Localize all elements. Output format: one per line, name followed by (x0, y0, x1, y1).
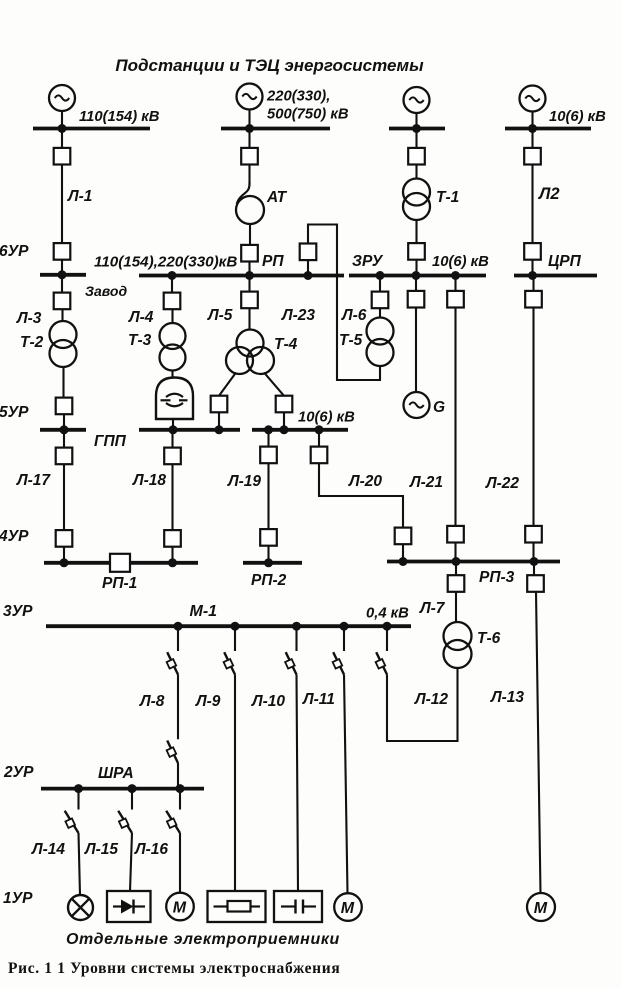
wire (177, 628, 179, 651)
switch (automatic breaker) (65, 811, 79, 833)
svg-text:110(154) кВ: 110(154) кВ (79, 109, 160, 125)
wire (61, 111, 63, 128)
breaker (408, 243, 425, 260)
svg-text:ЦРП: ЦРП (548, 253, 582, 270)
svg-text:РП-2: РП-2 (251, 572, 287, 589)
svg-text:220(330),: 220(330), (266, 89, 330, 105)
junction (376, 271, 385, 280)
bus 220(330)/500(750) kV (221, 127, 330, 131)
junction (176, 784, 185, 793)
bus РП-2 (243, 561, 302, 565)
breaker (211, 396, 228, 413)
junction (58, 270, 67, 279)
svg-text:РП-3: РП-3 (479, 569, 515, 586)
breaker (164, 530, 181, 547)
wire (531, 111, 533, 127)
junction (412, 124, 421, 133)
line Л2 wire (531, 165, 533, 244)
breaker Л-20 (311, 447, 328, 464)
svg-text:Л-16: Л-16 (134, 841, 168, 858)
svg-text:Рис. 1 1 Уровни системы элект: Рис. 1 1 Уровни системы электроснабжения (8, 960, 340, 977)
junction (412, 271, 421, 280)
bus М-1 0,4кВ (46, 624, 411, 628)
junction (168, 558, 177, 567)
wire (415, 308, 417, 393)
bus РП-1 (44, 561, 198, 565)
breaker (276, 396, 293, 413)
wire (61, 130, 63, 148)
switch (automatic breaker) (118, 811, 132, 833)
breaker (447, 526, 464, 543)
bus ШРА (41, 787, 204, 791)
svg-text:РП: РП (262, 253, 284, 270)
wire (177, 675, 179, 740)
line Л-22 wire (532, 308, 534, 527)
switch (automatic breaker) (285, 652, 296, 674)
breaker (447, 291, 464, 308)
wire (295, 628, 297, 651)
wire (248, 165, 250, 184)
wire (77, 790, 79, 810)
junction (315, 425, 324, 434)
wire (532, 543, 534, 561)
wire (61, 309, 63, 321)
svg-text:Т-6: Т-6 (477, 630, 501, 647)
wire Л-20 route (319, 463, 403, 527)
breaker Л-7 (448, 575, 465, 592)
line Л-21 wire (454, 308, 456, 527)
generator G (404, 392, 430, 418)
junction (264, 558, 273, 567)
junction (530, 557, 539, 566)
svg-text:Л-12: Л-12 (414, 691, 448, 708)
junction (304, 271, 313, 280)
wire (171, 277, 173, 293)
svg-text:Л-18: Л-18 (132, 472, 166, 489)
svg-text:Отдельные электроприемники: Отдельные электроприемники (66, 931, 340, 948)
transformer Т-3 (160, 323, 186, 371)
junction (74, 784, 83, 793)
junction (168, 271, 177, 280)
wire (248, 277, 250, 292)
wire (63, 431, 65, 448)
junction (528, 124, 537, 133)
wire (455, 563, 457, 575)
bus (389, 127, 445, 131)
wire (267, 546, 269, 561)
bus РП 110(154),220(330)кВ (139, 274, 344, 278)
svg-text:Т-4: Т-4 (274, 336, 298, 353)
breaker Л-18 (164, 448, 181, 465)
bus 10(6)кВ ГПП (252, 428, 348, 432)
junction (280, 425, 289, 434)
svg-text:10(6) кВ: 10(6) кВ (549, 109, 606, 125)
wire (415, 277, 417, 291)
wire (63, 414, 65, 428)
svg-text:Л-21: Л-21 (409, 474, 443, 491)
svg-text:10(6) кВ: 10(6) кВ (432, 254, 489, 270)
svg-text:10(6) кВ: 10(6) кВ (298, 410, 355, 426)
svg-text:Л-9: Л-9 (195, 693, 221, 710)
motor М (Л-11) (334, 893, 362, 921)
breaker (408, 291, 425, 308)
electrothermal load (furnace) under Т-3 (156, 378, 193, 420)
breaker Л-3 (54, 293, 71, 310)
junction (528, 271, 537, 280)
svg-text:Л-1: Л-1 (67, 188, 92, 205)
wire (171, 371, 173, 378)
wire (179, 790, 181, 810)
wire (248, 130, 250, 148)
svg-text:G: G (433, 399, 445, 416)
wire (531, 260, 533, 275)
junction (451, 271, 460, 280)
wire (249, 224, 251, 245)
transformer Т-2 (50, 321, 77, 367)
breaker (524, 243, 541, 260)
wire (62, 367, 64, 398)
svg-text:Л-5: Л-5 (207, 307, 233, 324)
transformer Т-5 (367, 318, 394, 367)
svg-text:М: М (341, 900, 355, 917)
svg-text:110(154),220(330)кВ: 110(154),220(330)кВ (94, 254, 237, 271)
autotransformer АТ (236, 182, 264, 224)
switch (automatic breaker) (376, 652, 387, 674)
wire (63, 547, 65, 561)
breaker (241, 148, 258, 165)
capacitor load box (274, 891, 322, 922)
svg-text:0,4 кВ: 0,4 кВ (366, 606, 409, 622)
breaker (54, 148, 71, 165)
svg-text:ЗРУ: ЗРУ (352, 253, 384, 270)
line Л-1 wire (61, 165, 63, 244)
wire (172, 419, 174, 428)
svg-text:Т-1: Т-1 (436, 189, 459, 206)
wire (344, 675, 348, 894)
wire Л-12 route (387, 668, 458, 741)
junction (60, 425, 69, 434)
wire (379, 308, 381, 318)
line Л-13 wire (536, 592, 541, 894)
wire (234, 675, 236, 892)
wire (379, 277, 381, 292)
svg-text:АТ: АТ (266, 189, 288, 206)
breaker Л-13 (527, 575, 544, 592)
svg-text:ГПП: ГПП (94, 433, 127, 450)
svg-text:М: М (173, 900, 187, 917)
bus РП-3 (387, 560, 560, 564)
breaker 4УР (56, 530, 73, 547)
motor М (Л-13) (527, 893, 555, 921)
switch (automatic breaker) (333, 652, 344, 674)
svg-text:Т-3: Т-3 (128, 332, 152, 349)
svg-text:500(750) кВ: 500(750) кВ (267, 107, 349, 123)
transformer Т-4 (3-winding) (226, 330, 274, 375)
transformer Т-6 (444, 622, 472, 668)
source ~ system 220-750kV (237, 84, 263, 110)
breaker (408, 148, 425, 165)
switch (automatic breaker) (167, 652, 178, 674)
rectifier load box (107, 891, 151, 922)
junction (452, 557, 461, 566)
svg-text:Т-5: Т-5 (339, 332, 363, 349)
breaker (260, 529, 277, 546)
breaker (241, 245, 258, 262)
wire (415, 220, 417, 243)
breaker 5УР (56, 398, 73, 415)
motor М (Л-16) (166, 893, 194, 921)
wire (79, 833, 81, 895)
wire (130, 833, 132, 891)
svg-text:Л-11: Л-11 (302, 691, 335, 708)
wire (454, 277, 456, 291)
wire (343, 628, 345, 651)
svg-text:Л-8: Л-8 (139, 693, 165, 710)
junction (169, 425, 178, 434)
wire Т-4 left leg (219, 373, 236, 396)
breaker Л-17 (56, 448, 73, 465)
svg-text:Л-10: Л-10 (251, 693, 285, 710)
wire (171, 464, 173, 530)
wire (386, 628, 388, 651)
wire (532, 277, 534, 291)
junction (292, 622, 301, 631)
wire (63, 464, 65, 530)
svg-text:РП-1: РП-1 (102, 575, 137, 592)
wire (454, 543, 456, 561)
wire (218, 412, 220, 428)
resistor load box (208, 891, 266, 922)
source ~ system 10(6)kV (520, 86, 546, 112)
wire (248, 109, 250, 127)
bus Завод (6УР) (40, 273, 86, 277)
breaker 6УР (54, 243, 71, 260)
wire (171, 309, 173, 323)
wire (415, 113, 417, 128)
wire (531, 130, 533, 148)
wire (297, 675, 299, 892)
breaker (395, 528, 412, 545)
wire (402, 544, 404, 560)
source ~ system (Т-1 feeder) (404, 87, 430, 113)
svg-text:2УР: 2УР (3, 764, 34, 781)
wire (415, 165, 417, 179)
svg-text:Л-4: Л-4 (128, 309, 154, 326)
wire (267, 463, 269, 529)
junction (245, 271, 254, 280)
bus ЗРУ 10(6)кВ (349, 274, 486, 278)
svg-text:Л-19: Л-19 (227, 473, 261, 490)
svg-text:Л-22: Л-22 (485, 475, 519, 492)
junction (383, 622, 392, 631)
breaker Л-23 (300, 244, 317, 261)
transformer Т-1 (403, 179, 430, 221)
svg-text:Л-15: Л-15 (84, 841, 118, 858)
svg-text:Л-3: Л-3 (16, 310, 42, 327)
svg-text:4УР: 4УР (0, 528, 29, 545)
svg-text:Л-17: Л-17 (16, 472, 51, 489)
svg-text:Л-23: Л-23 (281, 307, 315, 324)
wire (267, 431, 269, 447)
wire (415, 260, 417, 275)
sectionalizing switch РП-1 (110, 554, 130, 572)
svg-text:1УР: 1УР (3, 890, 33, 907)
bus 10(6) kV (505, 127, 591, 131)
wire (248, 262, 250, 275)
svg-text:Подстанции и ТЭЦ энергосистемы: Подстанции и ТЭЦ энергосистемы (115, 56, 424, 75)
junction (174, 622, 183, 631)
svg-text:М: М (534, 900, 548, 917)
switch (automatic breaker) (224, 652, 235, 674)
svg-text:Т-2: Т-2 (20, 334, 44, 351)
switch (automatic breaker) (166, 811, 180, 833)
wire (171, 547, 173, 561)
svg-text:Л-7: Л-7 (419, 600, 446, 617)
wire Т-4 right leg (264, 373, 284, 396)
svg-text:5УР: 5УР (0, 404, 29, 421)
wire (455, 592, 457, 623)
lamp load (68, 895, 93, 920)
junction (399, 557, 408, 566)
breaker Л-6 (372, 292, 389, 309)
breaker Л-4 (164, 293, 181, 310)
breaker Л-19 (260, 447, 277, 464)
junction (264, 425, 273, 434)
svg-text:ШРА: ШРА (98, 765, 134, 782)
junction (128, 784, 137, 793)
wire (177, 763, 179, 787)
bus ГПП-left (40, 428, 86, 432)
bus ГПП (139, 428, 240, 432)
wire (318, 431, 320, 447)
wire (307, 260, 309, 274)
junction (60, 558, 69, 567)
svg-text:Л-14: Л-14 (31, 841, 65, 858)
breaker (525, 526, 542, 543)
wire (179, 833, 181, 893)
wire (283, 412, 285, 428)
junction (58, 124, 67, 133)
wire (171, 431, 173, 448)
svg-text:3УР: 3УР (3, 603, 33, 620)
svg-text:Л2: Л2 (538, 185, 560, 203)
svg-text:6УР: 6УР (0, 243, 29, 260)
wire (533, 563, 535, 575)
bus 110(154) kV (33, 127, 150, 131)
breaker Л-5 (241, 292, 258, 309)
switch (automatic breaker) Л-8 lower (167, 741, 178, 764)
junction (245, 124, 254, 133)
wire (234, 628, 236, 651)
wire (415, 130, 417, 148)
junction (215, 425, 224, 434)
svg-text:Завод: Завод (85, 283, 127, 299)
breaker (525, 291, 542, 308)
breaker (524, 148, 541, 165)
wire Л-23 loop (308, 225, 380, 381)
svg-text:Л-13: Л-13 (490, 689, 524, 706)
source ~ system 110(154)kV (49, 85, 75, 111)
svg-text:Л-20: Л-20 (348, 473, 382, 490)
bus ЦРП (514, 274, 597, 278)
junction (340, 622, 349, 631)
wire (61, 276, 63, 293)
svg-text:М-1: М-1 (190, 603, 218, 620)
wire (61, 260, 63, 274)
svg-text:Л-6: Л-6 (341, 307, 367, 324)
junction (231, 622, 240, 631)
wire (248, 308, 250, 330)
wire (131, 790, 133, 810)
